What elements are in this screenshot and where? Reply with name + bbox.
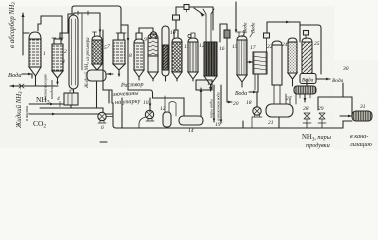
wire: column1 top to pipe up-right bbox=[38, 16, 62, 40]
column 10 (tall thin) bbox=[162, 26, 169, 76]
pump 29 bbox=[319, 113, 325, 119]
wire: vapour line with up arrow bbox=[200, 88, 202, 116]
box: Вода inlet bbox=[300, 74, 316, 84]
wire: bottom header from box4 bbox=[71, 105, 96, 108]
wire: water inlet arrow bbox=[22, 74, 32, 78]
wire: arrow into drum 31 bbox=[340, 115, 352, 117]
fitting on top loop bbox=[184, 5, 189, 10]
wire: long vertical pipe to evaporator loop bbox=[121, 25, 128, 82]
box 4 (mixer) bbox=[73, 89, 75, 93]
wire: pipe from tower top to cyclone bbox=[220, 24, 227, 42]
wire: arrow up to absorber bbox=[22, 13, 24, 55]
box under column 12 bbox=[196, 80, 212, 90]
wire: vessel3 top header bbox=[74, 12, 100, 14]
column 14 (tube bundle condenser) bbox=[237, 32, 246, 36]
wire: arrow into drum bbox=[107, 73, 113, 75]
granulation tower 16 bbox=[206, 14, 211, 42]
wire: NH3 feed line bbox=[29, 103, 64, 105]
wire: top loop over tower bbox=[175, 20, 177, 30]
column 9 (packing chevron) bbox=[148, 34, 158, 38]
column 12 (v-hatch) bbox=[191, 33, 195, 38]
compressor on col9 top bbox=[150, 32, 156, 38]
pump 18 bbox=[253, 107, 261, 115]
flask 12 bbox=[165, 96, 169, 112]
column 2 bbox=[54, 39, 61, 44]
wire: column2 top pipe bbox=[60, 14, 74, 38]
wire: liquid NH3 outlet to left bbox=[10, 85, 58, 87]
wire: loop col8 to col9 bbox=[139, 28, 153, 33]
label: в абсорбер NH3 (rotated) bbox=[8, 2, 17, 48]
label: Жидкий NH3 (rotated, bottom-left) bbox=[16, 83, 29, 129]
column 5 (small crosshatch) bbox=[93, 32, 97, 36]
condenser 27 (hatched drum) bbox=[294, 86, 316, 94]
valve on top of HX bbox=[266, 38, 268, 52]
drum under column 5 bbox=[87, 70, 106, 81]
wire: two parallel pipes with rotated labels bbox=[214, 85, 221, 123]
column 8 bbox=[136, 33, 142, 39]
wire: solution down pipes bbox=[103, 30, 112, 90]
wire: loop feeding pump 10 and drum 14 bbox=[128, 82, 184, 116]
drum 31 (hatched) bbox=[352, 111, 372, 121]
wire: CO2 feed line bbox=[29, 113, 113, 115]
column 11 (grid hatch) bbox=[174, 30, 178, 38]
wire: water step line bbox=[342, 83, 344, 97]
wire: bottom right header bbox=[252, 121, 352, 128]
scan grain overlay bbox=[0, 6, 334, 148]
wire: top right loop bbox=[267, 21, 300, 23]
pump 28 bbox=[304, 113, 310, 119]
column 24 (stippled) bbox=[288, 38, 297, 42]
coil heat exchanger 17 bbox=[253, 52, 267, 74]
label: NH3, пары продувки bbox=[302, 134, 331, 149]
label: в канализацию bbox=[349, 133, 372, 148]
column 7 (dark hatched) bbox=[118, 33, 124, 40]
pump 10 bbox=[145, 110, 153, 118]
wire: pipe at col14 bbox=[235, 2, 237, 30]
column 25 (diagonal hatch) bbox=[304, 31, 309, 36]
column 1 (scrubber) bbox=[29, 32, 41, 39]
cyclone bbox=[224, 30, 230, 38]
wire: slant arrow into tower bbox=[194, 8, 204, 15]
pump 6 bbox=[98, 112, 106, 120]
wire: small arrows to col14 nozzles bbox=[242, 33, 253, 37]
wire: tall right pipe bbox=[300, 25, 321, 74]
valve on NH3 outlet bbox=[19, 84, 24, 88]
wire: Y arrow below condenser bbox=[304, 94, 306, 102]
vessel 3 (tall thin receiver) bbox=[69, 15, 78, 89]
wire: pipe along vessel 3 bbox=[81, 14, 83, 70]
wire: long bottom line bbox=[113, 103, 252, 128]
wire: col18/col24 bottoms bbox=[292, 79, 294, 86]
wire: arrow into coil HX bbox=[247, 61, 253, 63]
column 18 (plain) bbox=[272, 41, 282, 45]
paper background bbox=[0, 0, 378, 154]
wire: line 20 out bbox=[227, 38, 232, 102]
drum 21 bbox=[274, 85, 290, 104]
wire: arch from flask to drum bbox=[169, 102, 176, 117]
label: Раствор мочевины на упарку bbox=[112, 81, 144, 106]
drum 14 bbox=[179, 116, 203, 125]
